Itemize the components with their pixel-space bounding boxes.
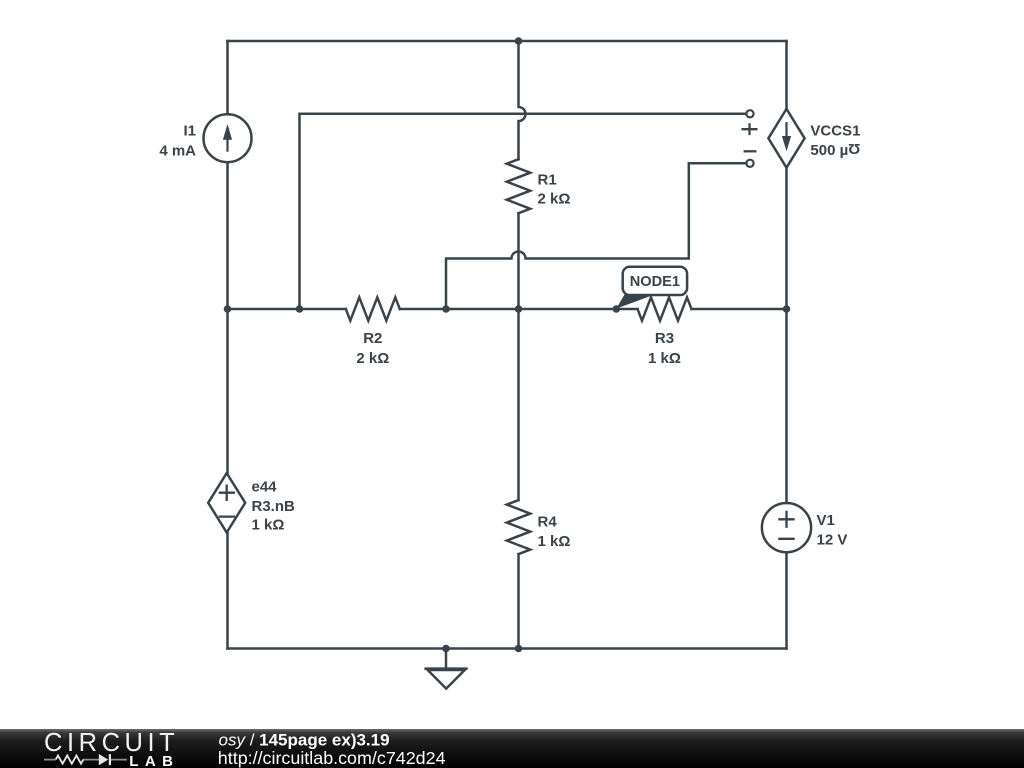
footer bar <box>0 729 1024 768</box>
wire mid vertical between mid rail and R4 <box>517 309 520 500</box>
junction dot NODE1 <box>613 305 621 313</box>
resistor R3 body <box>638 297 692 320</box>
svg-text:V1: V1 <box>817 512 835 529</box>
svg-text:12 V: 12 V <box>817 531 848 548</box>
junction dot mid vertical at mid rail <box>515 305 523 313</box>
NODE1 flag box <box>623 267 687 295</box>
junction dot node B at mid rail <box>442 305 450 313</box>
svg-text:2 kΩ: 2 kΩ <box>538 191 571 208</box>
svg-text:R4: R4 <box>538 513 558 530</box>
dependent source VCCS1 diamond <box>768 109 804 168</box>
svg-text:R1: R1 <box>538 171 557 188</box>
wire top rail <box>228 40 787 43</box>
wire left rail middle (I1 to e44) <box>226 162 229 473</box>
wire mid vertical between R4 and bottom rail <box>517 554 520 648</box>
svg-text:VCCS1: VCCS1 <box>810 123 860 140</box>
svg-text:1 kΩ: 1 kΩ <box>538 533 571 550</box>
dependent source e44 diamond <box>208 473 245 532</box>
VCCS1 minus sign <box>744 150 757 152</box>
wire node A: VCCS control plus lead <box>300 114 747 309</box>
wire mid horizontal rail center segment <box>400 308 638 311</box>
svg-text:Ω: Ω <box>848 140 860 157</box>
resistor R2 body <box>346 297 400 320</box>
wire right rail lower (bottom rail to V1) <box>785 552 788 648</box>
VCCS1 plus sign <box>741 123 757 135</box>
e44 plus sign <box>219 485 235 502</box>
svg-text:1 kΩ: 1 kΩ <box>252 517 285 534</box>
wire bottom rail <box>228 647 787 650</box>
V1 minus sign <box>778 538 794 540</box>
wire mid horizontal rail left segment <box>228 308 346 311</box>
junction dot mid rail right <box>783 305 791 313</box>
logo resistor-diode glyph <box>44 759 127 761</box>
wire mid horizontal rail right segment <box>692 308 787 311</box>
wire right rail upper (VCCS1 to top rail) <box>785 41 788 109</box>
svg-text:500 µ: 500 µ <box>810 142 848 159</box>
svg-text:osy / 145page ex)3.19: osy / 145page ex)3.19 <box>219 730 390 749</box>
voltage source V1 circle <box>762 503 811 552</box>
e44 minus sign <box>219 515 235 517</box>
junction dot mid-rail left <box>224 305 232 313</box>
wire right rail middle (V1 to VCCS1) <box>785 168 788 503</box>
svg-text:R3: R3 <box>655 330 674 347</box>
VCCS1 arrow <box>785 122 787 141</box>
svg-text:R3.nB: R3.nB <box>252 498 296 515</box>
svg-text:2 kΩ: 2 kΩ <box>356 350 389 367</box>
svg-text:I1: I1 <box>183 123 196 140</box>
wire node B: VCCS control minus lead with hop over mid vertical <box>446 163 747 309</box>
svg-text:LAB: LAB <box>129 753 179 768</box>
svg-text:R2: R2 <box>363 330 382 347</box>
junction dot R4 bottom <box>515 645 523 653</box>
logo diode <box>99 754 108 765</box>
resistor R4 body <box>507 500 530 554</box>
resistor R1 body <box>507 159 530 213</box>
wire left rail upper (top rail to I1) <box>226 41 229 114</box>
junction dot node A at mid rail <box>296 305 304 313</box>
wire mid vertical with hop over node-A wire <box>519 41 526 159</box>
junction dot ground <box>442 645 450 653</box>
svg-text:http://circuitlab.com/c742d24: http://circuitlab.com/c742d24 <box>218 748 446 768</box>
terminal circle VCCS control plus <box>746 110 753 117</box>
svg-text:NODE1: NODE1 <box>630 274 680 290</box>
V1 plus sign <box>778 511 794 528</box>
wire mid vertical between R1 and mid rail <box>517 213 520 309</box>
I1 arrow <box>226 133 228 152</box>
NODE1 pointer wedge <box>616 295 652 309</box>
svg-text:e44: e44 <box>252 479 278 496</box>
current source I1 circle <box>204 114 252 162</box>
svg-text:4 mA: 4 mA <box>159 143 196 160</box>
junction dot top mid <box>515 37 523 45</box>
svg-text:1 kΩ: 1 kΩ <box>648 350 681 367</box>
terminal circle VCCS control minus <box>746 160 753 167</box>
wire left rail lower (e44 to bottom rail) <box>226 533 229 649</box>
ground symbol <box>426 649 467 689</box>
